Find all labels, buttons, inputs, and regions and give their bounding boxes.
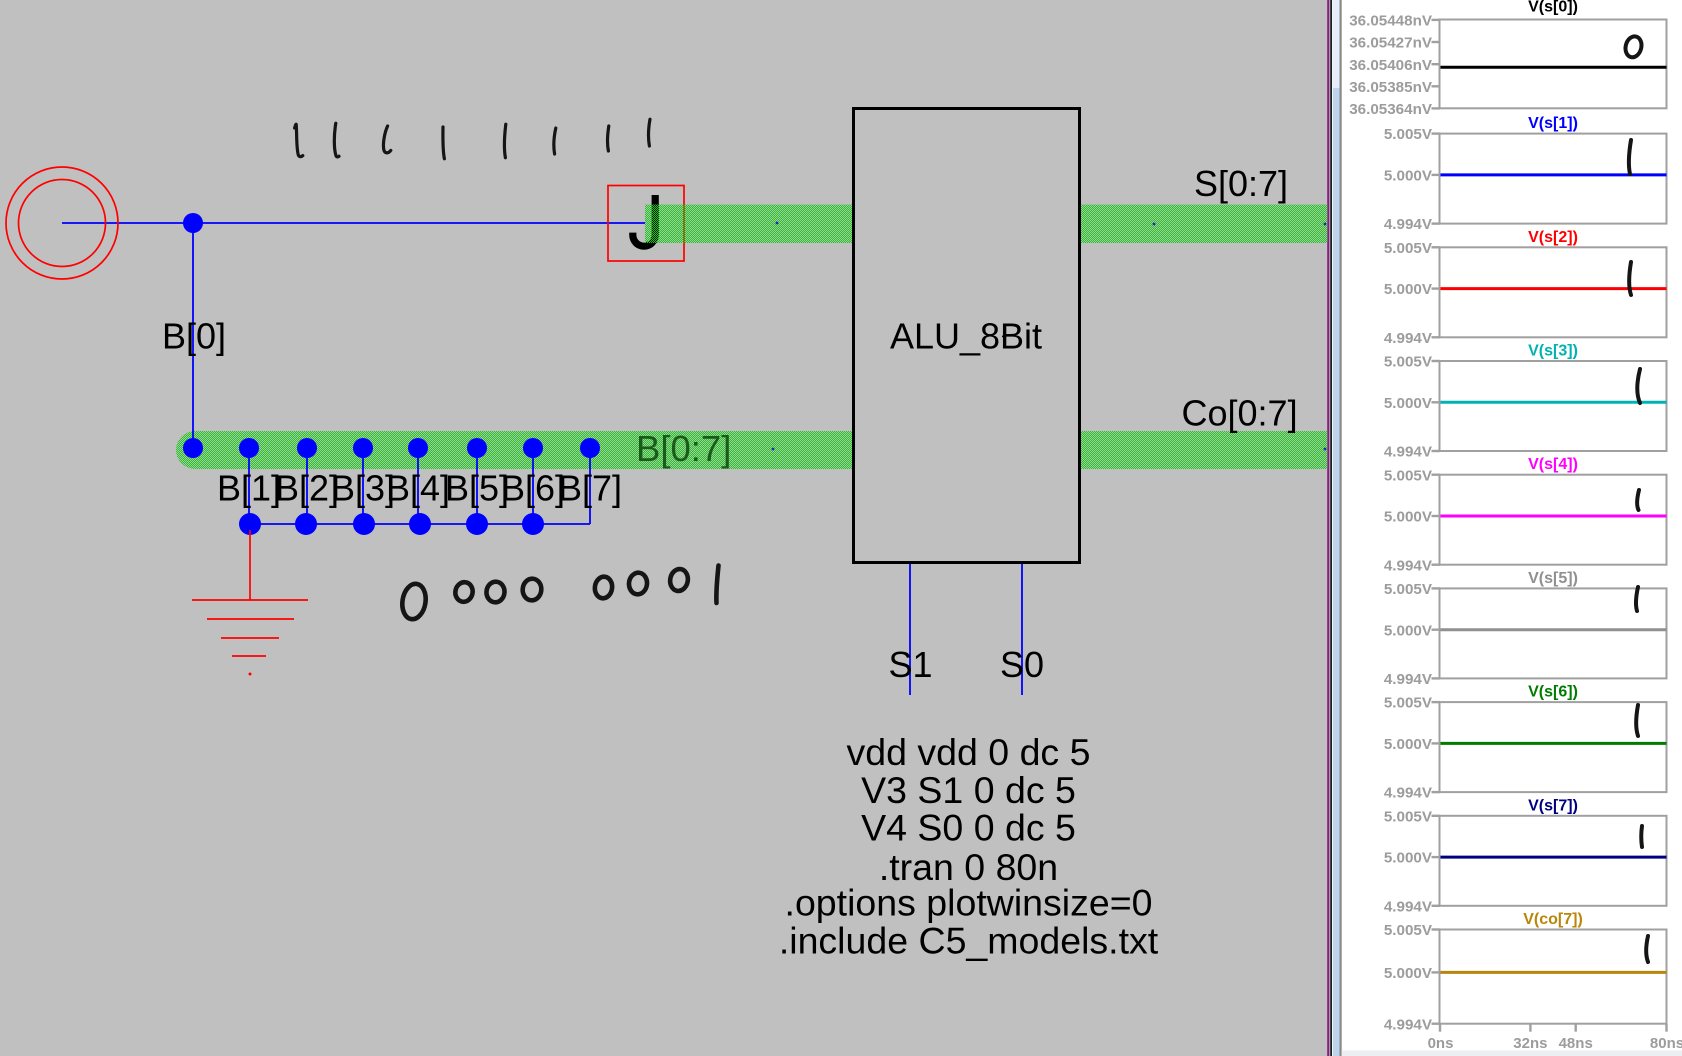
svg-text:V(s[2]): V(s[2]) xyxy=(1528,229,1578,246)
svg-text:vdd vdd 0 dc 5: vdd vdd 0 dc 5 xyxy=(847,731,1091,773)
svg-text:0ns: 0ns xyxy=(1428,1035,1454,1052)
svg-text:4.994V: 4.994V xyxy=(1384,1016,1433,1033)
svg-text:B[0]: B[0] xyxy=(162,316,226,357)
svg-text:36.05406nV: 36.05406nV xyxy=(1349,57,1433,74)
svg-text:4.994V: 4.994V xyxy=(1384,671,1433,688)
svg-text:B[1]: B[1] xyxy=(217,468,281,509)
svg-text:V(s[1]): V(s[1]) xyxy=(1528,115,1578,132)
svg-text:S0: S0 xyxy=(1000,644,1044,685)
svg-text:V(s[0]): V(s[0]) xyxy=(1528,0,1578,16)
svg-text:V(co[7]): V(co[7]) xyxy=(1523,911,1583,928)
svg-text:48ns: 48ns xyxy=(1559,1035,1593,1052)
svg-text:V(s[4]): V(s[4]) xyxy=(1528,456,1578,473)
svg-text:V(s[5]): V(s[5]) xyxy=(1528,570,1578,587)
svg-text:4.994V: 4.994V xyxy=(1384,898,1433,915)
svg-text:5.005V: 5.005V xyxy=(1384,126,1433,143)
svg-text:B[0:7]: B[0:7] xyxy=(636,428,731,469)
svg-text:4.994V: 4.994V xyxy=(1384,216,1433,233)
svg-text:5.005V: 5.005V xyxy=(1384,808,1433,825)
svg-text:B[2]: B[2] xyxy=(275,468,339,509)
svg-text:5.000V: 5.000V xyxy=(1384,395,1433,412)
svg-text:32ns: 32ns xyxy=(1513,1035,1547,1052)
svg-text:Co[0:7]: Co[0:7] xyxy=(1182,393,1298,434)
svg-text:5.000V: 5.000V xyxy=(1384,509,1433,526)
svg-text:5.000V: 5.000V xyxy=(1384,622,1433,639)
svg-text:S[0:7]: S[0:7] xyxy=(1194,163,1288,204)
svg-text:5.000V: 5.000V xyxy=(1384,965,1433,982)
svg-text:B[6]: B[6] xyxy=(501,468,565,509)
svg-text:5.005V: 5.005V xyxy=(1384,467,1433,484)
svg-text:80ns: 80ns xyxy=(1650,1035,1682,1052)
svg-text:B[5]: B[5] xyxy=(445,468,509,509)
svg-text:5.000V: 5.000V xyxy=(1384,281,1433,298)
svg-text:5.005V: 5.005V xyxy=(1384,240,1433,257)
svg-text:5.005V: 5.005V xyxy=(1384,581,1433,598)
svg-text:S1: S1 xyxy=(889,644,933,685)
svg-text:36.05385nV: 36.05385nV xyxy=(1349,79,1433,96)
svg-text:V(s[7]): V(s[7]) xyxy=(1528,797,1578,814)
svg-text:4.994V: 4.994V xyxy=(1384,330,1433,347)
svg-text:5.005V: 5.005V xyxy=(1384,695,1433,712)
svg-text:V(s[6]): V(s[6]) xyxy=(1528,684,1578,701)
svg-text:36.05448nV: 36.05448nV xyxy=(1349,13,1433,30)
svg-text:5.005V: 5.005V xyxy=(1384,354,1433,371)
svg-text:B[4]: B[4] xyxy=(386,468,450,509)
svg-text:5.000V: 5.000V xyxy=(1384,850,1433,867)
svg-text:4.994V: 4.994V xyxy=(1384,444,1433,461)
svg-text:36.05364nV: 36.05364nV xyxy=(1349,101,1433,118)
svg-text:36.05427nV: 36.05427nV xyxy=(1349,35,1433,52)
svg-text:ALU_8Bit: ALU_8Bit xyxy=(890,316,1042,357)
svg-text:.options plotwinsize=0: .options plotwinsize=0 xyxy=(785,882,1153,924)
svg-text:V4 S0 0 dc 5: V4 S0 0 dc 5 xyxy=(861,807,1076,849)
svg-text:V(s[3]): V(s[3]) xyxy=(1528,343,1578,360)
svg-text:B[7]: B[7] xyxy=(558,468,622,509)
svg-text:V3 S1 0 dc 5: V3 S1 0 dc 5 xyxy=(861,769,1076,811)
svg-text:5.000V: 5.000V xyxy=(1384,168,1433,185)
svg-text:5.000V: 5.000V xyxy=(1384,736,1433,753)
svg-text:.include C5_models.txt: .include C5_models.txt xyxy=(779,920,1159,962)
svg-text:4.994V: 4.994V xyxy=(1384,785,1433,802)
svg-text:4.994V: 4.994V xyxy=(1384,557,1433,574)
svg-text:5.005V: 5.005V xyxy=(1384,922,1433,939)
